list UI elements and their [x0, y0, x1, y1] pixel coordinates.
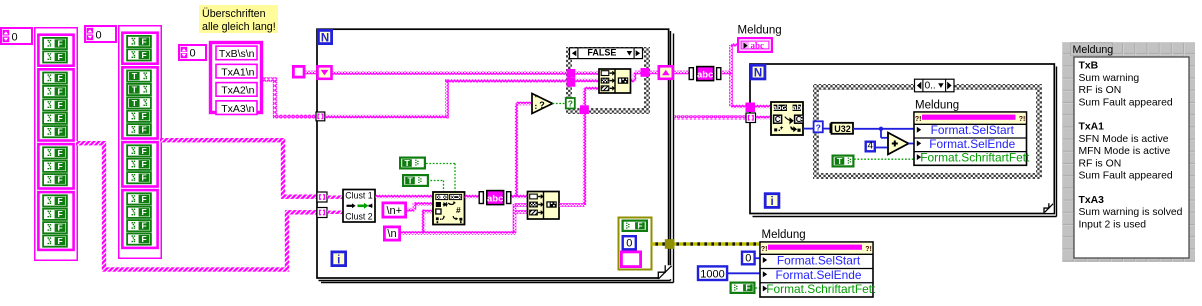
svg-text:N: N	[754, 68, 762, 80]
svg-text:i: i	[337, 254, 340, 266]
for-loop 2 page curl	[1044, 203, 1054, 213]
property node Meldung bottom	[760, 242, 876, 297]
wire T upper to search node	[426, 164, 455, 192]
svg-text:F: F	[57, 86, 62, 96]
svg-text:Meldung: Meldung	[915, 100, 959, 112]
svg-text:F: F	[57, 127, 62, 137]
wire shift register to case	[332, 71, 568, 75]
wire cluster node to search node	[375, 195, 433, 199]
svg-text:N: N	[321, 32, 329, 44]
tunnel cluster-array 2 input	[317, 208, 327, 218]
wire tunnel1 to cluster node	[327, 196, 344, 199]
conversion node U32	[830, 123, 854, 134]
add function	[888, 133, 909, 155]
case selector label FALSE	[570, 48, 643, 59]
function empty string check triangle	[532, 94, 553, 114]
numeric constant 1000	[698, 266, 727, 280]
panel label Meldung	[1071, 43, 1114, 56]
svg-text:F: F	[57, 73, 62, 83]
svg-text:TxB\s\n: TxB\s\n	[219, 48, 255, 60]
wire array1 to loop tunnel	[76, 141, 317, 272]
boolean constant T upper	[400, 158, 425, 169]
svg-text:F: F	[141, 234, 146, 244]
function replace substring inner	[528, 192, 560, 220]
svg-text:Clust 2: Clust 2	[345, 212, 372, 222]
svg-text:Format.SelEnde: Format.SelEnde	[776, 268, 862, 282]
wire nplus to search node	[407, 202, 433, 211]
wire const to shift register	[305, 71, 318, 75]
svg-text:0: 0	[96, 29, 102, 41]
string constant \n	[384, 227, 399, 240]
svg-text:U32: U32	[834, 124, 851, 134]
svg-text:alle gleich lang!: alle gleich lang!	[202, 21, 276, 33]
wire U32 to property and add	[853, 127, 914, 138]
case selector terminal	[566, 98, 575, 109]
svg-text:F: F	[57, 223, 62, 233]
svg-text:F: F	[141, 111, 146, 121]
wire array2 to loop tunnel	[160, 138, 317, 199]
svg-text:F: F	[57, 175, 62, 185]
wire empty check to case selector	[553, 103, 567, 105]
svg-text:TxA3: TxA3	[1079, 195, 1105, 206]
svg-text:Meldung: Meldung	[1073, 44, 1114, 56]
svg-text:ab: ab	[792, 103, 801, 112]
svg-text:TxB: TxB	[1079, 61, 1099, 72]
svg-text:abc: abc	[773, 103, 786, 112]
array constant 2 index display	[85, 26, 116, 42]
function replace substring in case	[599, 69, 631, 93]
svg-text:0: 0	[12, 31, 18, 43]
numeric constant 0	[742, 252, 755, 265]
string array constant TxB/TxA1/TxA2/TxA3	[211, 43, 262, 115]
svg-text:T: T	[132, 84, 138, 94]
wire T lower to search node	[427, 181, 444, 192]
svg-text:F: F	[57, 38, 62, 48]
wire F to schriftartfett	[756, 287, 761, 289]
svg-text:0: 0	[190, 47, 196, 59]
svg-text:F: F	[141, 50, 146, 60]
case2 selector label	[915, 79, 955, 92]
svg-text:F: F	[141, 159, 146, 169]
svg-text:0: 0	[626, 238, 632, 250]
svg-text:F: F	[57, 100, 62, 110]
svg-text:Input 2 is used: Input 2 is used	[1079, 219, 1147, 230]
case structure FALSE border	[566, 47, 650, 114]
wire T to property schriftart	[854, 158, 914, 160]
svg-text:0..: 0..	[925, 81, 936, 92]
boolean cluster array constant 1	[35, 28, 78, 261]
svg-text:Format.SchriftartFett: Format.SchriftartFett	[766, 282, 876, 296]
shift register right terminal	[659, 66, 673, 79]
svg-text:?!: ?!	[1019, 116, 1026, 123]
svg-text:F: F	[57, 236, 62, 246]
array constant 1 index display	[1, 28, 32, 44]
boolean constant T lower	[403, 175, 428, 186]
front panel background	[1062, 42, 1195, 262]
svg-text:Sum Fault appeared: Sum Fault appeared	[1079, 97, 1173, 108]
case tunnel bottom	[580, 105, 589, 114]
svg-text:F: F	[141, 125, 146, 135]
wire shift register out to trim2	[673, 71, 689, 75]
svg-text:F: F	[57, 161, 62, 171]
wire string array out of loop	[675, 115, 747, 119]
svg-text:?!: ?!	[915, 116, 922, 123]
string indicator terminal Meldung	[738, 25, 782, 52]
svg-text:RF is ON: RF is ON	[1079, 158, 1122, 169]
boolean cluster array constant 2	[119, 26, 162, 259]
svg-text:F: F	[637, 220, 642, 230]
svg-text:Format.SelStart: Format.SelStart	[777, 254, 861, 268]
svg-text:4: 4	[867, 141, 873, 152]
svg-text:1000: 1000	[700, 268, 724, 280]
loop2 tunnel array	[746, 113, 756, 123]
svg-text:Sum warning is solved: Sum warning is solved	[1079, 207, 1183, 218]
svg-text:?: ?	[539, 100, 545, 110]
svg-text:0: 0	[745, 253, 751, 265]
wire search output to trim	[465, 195, 480, 199]
svg-text:Format.SelStart: Format.SelStart	[931, 123, 1015, 137]
svg-text:abc: abc	[487, 194, 503, 205]
for-loop main border	[317, 29, 674, 282]
svg-text:#: #	[456, 205, 461, 215]
svg-text:F: F	[57, 52, 62, 62]
svg-text:F: F	[141, 194, 146, 204]
svg-text:TxA1\n: TxA1\n	[221, 66, 254, 78]
svg-text:abc: abc	[751, 41, 765, 51]
empty string constant for shift register	[293, 66, 304, 77]
numeric constant 4	[866, 141, 875, 152]
wire trim to replace and empty-check	[512, 102, 533, 199]
shift register left terminal	[318, 66, 332, 79]
svg-text:T: T	[132, 71, 138, 81]
tunnel cluster-array 1 input	[317, 192, 327, 202]
svg-text:Überschriften: Überschriften	[202, 8, 266, 20]
wires to match node	[755, 105, 771, 120]
function trim whitespace 1	[479, 191, 511, 205]
for-loop main page curl	[658, 265, 672, 279]
svg-text:F: F	[57, 113, 62, 123]
svg-text:Meldung: Meldung	[738, 25, 782, 37]
svg-text:i: i	[770, 196, 773, 208]
svg-text:F: F	[57, 209, 62, 219]
svg-text:Meldung: Meldung	[762, 229, 806, 241]
function search and replace string	[433, 192, 465, 225]
svg-text:F: F	[141, 173, 146, 183]
wire tunnel2 to cluster node	[327, 211, 344, 214]
wire match to selector and U32	[803, 128, 831, 130]
case structure 0.. border	[813, 84, 1042, 179]
for-loop 2 border	[750, 64, 1057, 217]
wire case output to shift register	[649, 71, 659, 75]
case tunnel output	[641, 68, 650, 77]
tunnel error out	[665, 239, 675, 249]
svg-text:?: ?	[816, 122, 821, 132]
svg-text:F: F	[141, 207, 146, 217]
svg-text:Sum warning: Sum warning	[1079, 73, 1140, 84]
string array index display	[179, 45, 206, 60]
svg-text:T: T	[837, 156, 843, 166]
wire error cluster to property node	[652, 242, 761, 245]
wire trim2 to meldung and loop2	[721, 43, 746, 108]
wire indexed string to case	[325, 79, 567, 118]
function match pattern	[771, 102, 803, 135]
loop2 count terminal N	[751, 65, 765, 80]
wire string array to loop tunnel	[263, 77, 316, 118]
svg-text:T: T	[407, 175, 413, 185]
wire replace2 output to case tunnel	[559, 114, 586, 207]
svg-text:F: F	[57, 196, 62, 206]
case tunnel input 2	[567, 78, 576, 87]
function trim whitespace 2	[689, 67, 721, 81]
boolean constant T loop2	[833, 156, 854, 167]
loop2 tunnel string	[746, 103, 756, 113]
svg-text:FALSE: FALSE	[587, 48, 616, 58]
svg-text:Clust 1: Clust 1	[345, 190, 372, 200]
wire 1000 to selende	[728, 272, 761, 274]
svg-text:TxA3\n: TxA3\n	[221, 103, 254, 115]
svg-text:\n: \n	[387, 228, 396, 240]
wire 0 to selstart	[755, 257, 761, 259]
svg-text:F: F	[141, 146, 146, 156]
iteration terminal i main	[332, 252, 346, 267]
comment note Ueberschriften	[199, 5, 278, 33]
svg-text:Format.SchriftartFett: Format.SchriftartFett	[920, 151, 1030, 165]
svg-text:T: T	[404, 158, 410, 168]
svg-text:TxA2\n: TxA2\n	[221, 85, 254, 97]
svg-text:RF is ON: RF is ON	[1079, 85, 1122, 96]
wire 4 to add	[875, 147, 888, 149]
svg-text:F: F	[141, 221, 146, 231]
svg-text:F: F	[57, 148, 62, 158]
boolean constant F bottom	[731, 282, 755, 293]
svg-text:?: ?	[568, 99, 573, 109]
error cluster constant	[619, 218, 652, 270]
svg-text:\n+: \n+	[386, 205, 402, 217]
svg-text:Format.SelEnde: Format.SelEnde	[929, 137, 1015, 151]
wire add to property	[909, 143, 915, 145]
case tunnel input 1	[567, 69, 576, 78]
property node Meldung bottom label	[762, 229, 806, 241]
svg-text:abc: abc	[697, 70, 713, 81]
svg-text:MFN Mode is active: MFN Mode is active	[1079, 146, 1171, 157]
svg-text:Sum Fault appeared: Sum Fault appeared	[1079, 171, 1173, 182]
subVI cluster compare node Clust1/Clust2	[343, 190, 375, 223]
svg-text:?!: ?!	[761, 246, 768, 253]
svg-text:SFN Mode is active: SFN Mode is active	[1079, 134, 1169, 145]
string indicator Meldung panel	[1074, 57, 1189, 258]
svg-text:?!: ?!	[865, 246, 872, 253]
wires inside case	[575, 71, 640, 106]
svg-text:T: T	[132, 98, 138, 108]
case2 selector terminal	[814, 121, 823, 132]
loop2 iteration terminal i	[765, 194, 779, 209]
svg-text:F: F	[141, 36, 146, 46]
svg-text:”: ”	[534, 94, 538, 103]
svg-text:TxA1: TxA1	[1079, 122, 1105, 133]
string constant \n+	[383, 203, 406, 217]
svg-text:F: F	[745, 282, 750, 292]
wire n to nodes	[401, 203, 528, 235]
loop count terminal N main	[318, 30, 331, 44]
svg-text:C: C	[775, 115, 781, 124]
property node Meldung in loop	[914, 100, 1030, 166]
tunnel string-array input	[316, 112, 325, 121]
